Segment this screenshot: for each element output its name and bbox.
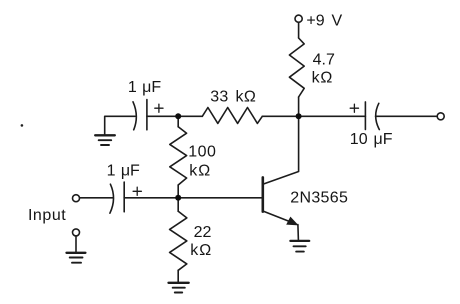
svg-text:1 μF: 1 μF [107,163,140,180]
svg-text:4.7: 4.7 [313,51,335,68]
svg-text:Input: Input [28,207,66,224]
svg-text:22: 22 [194,224,212,241]
svg-text:kΩ: kΩ [189,162,211,179]
svg-text:33 kΩ: 33 kΩ [210,89,256,106]
svg-text:100: 100 [188,144,216,161]
svg-text:+9 V: +9 V [306,12,342,29]
svg-text:kΩ: kΩ [312,69,334,86]
svg-text:1 μF: 1 μF [128,79,161,96]
svg-text:kΩ: kΩ [190,242,212,259]
svg-text:10 μF: 10 μF [350,131,393,148]
svg-text:2N3565: 2N3565 [290,189,348,206]
